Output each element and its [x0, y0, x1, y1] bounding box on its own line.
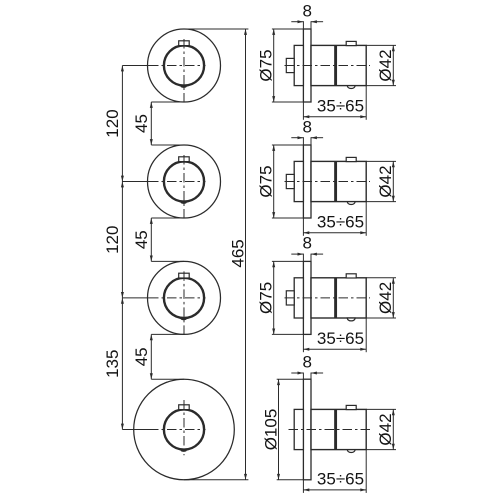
arrow up Ø75 row 3 — [272, 261, 275, 267]
extension line cylinder bottom row 1 — [366, 85, 396, 87]
front view handle knob circle row 3 (Ø42) — [164, 278, 204, 318]
extension line 35-65 left row 2 — [302, 218, 304, 236]
side view centerline row 2 — [285, 181, 371, 183]
arrow up dim 120 top — [121, 66, 124, 72]
extension line cylinder top row 3 — [366, 277, 396, 279]
extension line 8-dim left row 2 — [302, 137, 304, 145]
side view handle top index tab row 4 — [346, 405, 356, 409]
front view knob index tab row 2 — [179, 157, 190, 162]
extension line 8-dim left row 3 — [302, 254, 304, 262]
side view handle cylinder row 2 (Ø42) — [311, 161, 366, 201]
dimension line 45 gap 2 — [150, 218, 152, 261]
dimension line 8 left segment row 2 — [291, 137, 303, 139]
svg-text:45: 45 — [132, 347, 151, 366]
side view handle cylinder row 3 (Ø42) — [311, 278, 366, 318]
svg-text:45: 45 — [132, 230, 151, 249]
arrow up dim 45 gap 2 — [150, 218, 153, 224]
arrow right 35÷65 row 1 — [360, 115, 366, 118]
front view knob index tab row 1 — [179, 41, 190, 46]
dimension line Ø105 row 4 — [278, 379, 280, 480]
front view escutcheon plate circle row 4 (Ø105) — [134, 379, 235, 480]
extension line 35-65 right row 2 — [365, 202, 367, 236]
arrow left 35÷65 row 4 — [303, 488, 309, 491]
arrow 8-dim left row 1 — [298, 20, 304, 23]
arrow left 35÷65 row 3 — [303, 348, 309, 351]
side view handle bottom nub row 3 — [347, 318, 355, 321]
svg-text:Ø75: Ø75 — [257, 282, 276, 314]
extension line plate bottom row 3 — [272, 333, 304, 335]
front view vertical centerline row 1 — [183, 39, 185, 104]
arrow down Ø75 row 1 — [272, 96, 275, 102]
front view handle knob circle row 2 (Ø42) — [164, 161, 204, 201]
side view handle cylinder row 1 (Ø42) — [311, 45, 366, 85]
side view valve inlet stub row 3 — [286, 291, 294, 305]
front view horizontal centerline dash-dot row 1 — [149, 65, 206, 67]
arrow down Ø42 row 1 — [392, 80, 395, 86]
arrow right 35÷65 row 2 — [360, 231, 366, 234]
side view handle bottom nub row 2 — [347, 202, 355, 205]
front view knob bottom screw nub row 4 — [181, 449, 187, 452]
dimension line Ø42 row 1 — [392, 45, 394, 85]
front view vertical centerline row 2 — [183, 155, 185, 220]
side view centerline row 4 — [289, 429, 371, 431]
extension line plate bottom row 2 — [272, 217, 304, 219]
dimension line 8 right segment row 3 — [311, 253, 323, 255]
svg-text:8: 8 — [302, 353, 311, 372]
front view horizontal centerline dash-dot row 3 — [149, 297, 206, 299]
tangent extension line top of gap 3 — [151, 333, 184, 335]
side view valve body behind wall row 2 — [294, 161, 303, 201]
dimension line 120 (rows 2-3) — [121, 182, 123, 298]
front view handle knob circle row 4 (Ø42) — [164, 409, 204, 449]
dimension line 8 left segment row 4 — [291, 372, 303, 374]
arrow down dim 120b bottom — [121, 292, 124, 298]
side view valve body behind wall row 4 — [294, 409, 303, 449]
svg-text:Ø75: Ø75 — [257, 49, 276, 81]
front view horizontal centerline solid extension row 1 — [122, 65, 149, 67]
extension line cylinder top row 1 — [366, 44, 396, 46]
front view knob bottom screw nub row 2 — [181, 201, 187, 204]
arrow up dim 45 gap 3 — [150, 334, 153, 340]
side view valve body behind wall row 1 — [294, 45, 303, 85]
arrow down dim 45 gap 1 — [150, 139, 153, 145]
dimension line 35÷65 row 3 — [303, 348, 366, 350]
dimension line 8 right segment row 4 — [311, 372, 323, 374]
tangent extension line bottom of gap 3 — [151, 378, 184, 380]
arrow up dim 45 gap 1 — [150, 102, 153, 108]
side view valve inlet stub row 1 — [286, 58, 294, 72]
side view wall plate row 3 (Ø75 x 8) — [303, 261, 311, 334]
side view handle cylinder row 4 (Ø42) — [311, 409, 366, 449]
dimension line Ø75 row 3 — [273, 261, 275, 334]
front view horizontal centerline solid extension row 2 — [122, 181, 149, 183]
extension line cylinder bottom row 3 — [366, 317, 396, 319]
extension line 35-65 left row 3 — [302, 334, 304, 352]
svg-text:Ø42: Ø42 — [376, 49, 395, 81]
extension line cylinder bottom row 4 — [366, 449, 396, 451]
arrow down dim 45 gap 3 — [150, 373, 153, 379]
arrow up Ø105 row 4 — [277, 379, 280, 385]
side view collar/handle separation band row 2 — [334, 161, 337, 201]
dimension line 35÷65 row 1 — [303, 116, 366, 118]
arrow down Ø42 row 2 — [392, 196, 395, 202]
arrow up dim 135 top — [121, 298, 124, 304]
arrow down dim 45 gap 2 — [150, 256, 153, 262]
side view handle bottom nub row 1 — [347, 86, 355, 89]
extension line plate bottom row 4 — [277, 479, 304, 481]
arrow 8-dim right row 4 — [311, 372, 317, 375]
side view valve inlet stub row 2 — [286, 174, 294, 188]
arrow up dim 120b top — [121, 182, 124, 188]
svg-text:Ø105: Ø105 — [261, 409, 280, 451]
arrow down Ø42 row 3 — [392, 312, 395, 318]
side view handle bottom nub row 4 — [347, 450, 355, 453]
dimension line 8 left segment row 3 — [291, 253, 303, 255]
dimension line 8 right segment row 2 — [311, 137, 323, 139]
svg-text:35÷65: 35÷65 — [317, 212, 364, 231]
arrow up dim 465 — [244, 29, 247, 35]
side view wall plate row 1 (Ø75 x 8) — [303, 29, 311, 102]
extension line 35-65 left row 1 — [302, 102, 304, 120]
dimension line 35÷65 row 4 — [303, 489, 366, 491]
extension line 465 top — [184, 28, 248, 30]
dimension line 135 (rows 3-4) — [121, 298, 123, 430]
arrow 8-dim left row 3 — [298, 253, 304, 256]
arrow down dim 120 bottom — [121, 176, 124, 182]
front view escutcheon plate circle row 2 (Ø75) — [148, 145, 221, 218]
svg-text:8: 8 — [302, 117, 311, 136]
svg-text:8: 8 — [302, 234, 311, 253]
side view collar/handle separation band row 3 — [334, 278, 337, 318]
front view horizontal centerline dash-dot row 4 — [149, 429, 206, 431]
front view handle knob circle row 1 (Ø42) — [164, 45, 204, 85]
extension line 35-65 right row 3 — [365, 318, 367, 352]
extension line cylinder top row 4 — [366, 408, 396, 410]
arrow 8-dim right row 2 — [311, 136, 317, 139]
extension line plate top row 4 — [277, 378, 304, 380]
tangent extension line top of gap 1 — [151, 101, 184, 103]
side view handle top index tab row 2 — [346, 157, 356, 161]
extension line 35-65 right row 4 — [365, 450, 367, 493]
dimension line Ø75 row 1 — [273, 29, 275, 102]
arrow 8-dim left row 4 — [298, 372, 304, 375]
front view escutcheon plate circle row 3 (Ø75) — [148, 261, 221, 334]
dimension line 465 overall — [245, 29, 247, 480]
extension line 35-65 right row 1 — [365, 86, 367, 120]
svg-text:Ø75: Ø75 — [257, 165, 276, 197]
front view knob index tab row 4 — [179, 405, 190, 410]
arrow 8-dim right row 1 — [311, 20, 317, 23]
arrow up Ø42 row 2 — [392, 161, 395, 167]
dimension line 45 gap 3 — [150, 334, 152, 379]
side view wall plate row 4 (Ø105 x 8) — [303, 379, 311, 480]
extension line 8-dim left row 1 — [302, 21, 304, 29]
tangent extension line bottom of gap 1 — [151, 144, 184, 146]
extension line 465 bottom — [184, 479, 248, 481]
svg-text:35÷65: 35÷65 — [317, 470, 364, 489]
front view vertical centerline row 4 — [183, 400, 185, 455]
svg-text:45: 45 — [132, 114, 151, 133]
svg-text:Ø42: Ø42 — [376, 165, 395, 197]
arrow up Ø75 row 1 — [272, 29, 275, 35]
arrow down dim 135 bottom — [121, 424, 124, 430]
extension line plate top row 2 — [272, 144, 304, 146]
dimension line 120 (rows 1-2) — [121, 66, 123, 182]
svg-text:465: 465 — [229, 239, 248, 267]
side view collar/handle separation band row 4 — [334, 409, 337, 449]
arrow down Ø42 row 4 — [392, 444, 395, 450]
dimension line Ø42 row 2 — [392, 161, 394, 201]
dimension line 35÷65 row 2 — [303, 232, 366, 234]
tangent extension line top of gap 2 — [151, 217, 184, 219]
arrow 8-dim right row 3 — [311, 253, 317, 256]
arrow up Ø42 row 1 — [392, 45, 395, 51]
extension line 8-dim right row 2 — [310, 137, 312, 145]
extension line cylinder top row 2 — [366, 160, 396, 162]
front view knob bottom screw nub row 3 — [181, 318, 187, 321]
dimension line Ø75 row 2 — [273, 145, 275, 218]
tangent extension line bottom of gap 2 — [151, 260, 184, 262]
svg-text:35÷65: 35÷65 — [317, 329, 364, 348]
front view vertical centerline row 3 — [183, 271, 185, 336]
front view horizontal centerline solid extension row 4 — [122, 429, 149, 431]
side view handle top index tab row 1 — [346, 41, 356, 45]
front view horizontal centerline dash-dot row 2 — [149, 181, 206, 183]
dimension line Ø42 row 3 — [392, 278, 394, 318]
extension line 8-dim left row 4 — [302, 373, 304, 380]
front view knob bottom screw nub row 1 — [181, 85, 187, 88]
front view knob index tab row 3 — [179, 273, 190, 278]
arrow up Ø42 row 3 — [392, 278, 395, 284]
dimension line 8 right segment row 1 — [311, 21, 323, 23]
dimension line Ø42 row 4 — [392, 409, 394, 449]
svg-text:8: 8 — [302, 1, 311, 20]
extension line 8-dim right row 1 — [310, 21, 312, 29]
extension line 8-dim right row 4 — [310, 373, 312, 380]
svg-text:120: 120 — [103, 109, 122, 137]
extension line 8-dim right row 3 — [310, 254, 312, 262]
side view wall plate row 2 (Ø75 x 8) — [303, 145, 311, 218]
extension line plate top row 3 — [272, 260, 304, 262]
svg-text:120: 120 — [103, 226, 122, 254]
svg-text:Ø42: Ø42 — [376, 413, 395, 445]
svg-text:135: 135 — [103, 350, 122, 378]
side view handle top index tab row 3 — [346, 274, 356, 278]
front view horizontal centerline solid extension row 3 — [122, 297, 149, 299]
svg-text:35÷65: 35÷65 — [317, 96, 364, 115]
dimension line 45 gap 1 — [150, 102, 152, 145]
arrow up Ø42 row 4 — [392, 409, 395, 415]
arrow down Ø75 row 2 — [272, 212, 275, 218]
extension line plate bottom row 1 — [272, 101, 304, 103]
arrow right 35÷65 row 4 — [360, 488, 366, 491]
arrow right 35÷65 row 3 — [360, 348, 366, 351]
side view collar/handle separation band row 1 — [334, 45, 337, 85]
extension line 35-65 left row 4 — [302, 480, 304, 493]
arrow up Ø75 row 2 — [272, 145, 275, 151]
svg-text:Ø42: Ø42 — [376, 282, 395, 314]
arrow left 35÷65 row 1 — [303, 115, 309, 118]
side view centerline row 3 — [285, 297, 371, 299]
arrow down Ø75 row 3 — [272, 329, 275, 335]
arrow 8-dim left row 2 — [298, 136, 304, 139]
arrow down dim 465 — [244, 474, 247, 480]
extension line cylinder bottom row 2 — [366, 201, 396, 203]
front view escutcheon plate circle row 1 (Ø75) — [148, 29, 221, 102]
extension line plate top row 1 — [272, 28, 304, 30]
arrow left 35÷65 row 2 — [303, 231, 309, 234]
dimension line 8 left segment row 1 — [291, 21, 303, 23]
side view valve body behind wall row 3 — [294, 278, 303, 318]
arrow down Ø105 row 4 — [277, 474, 280, 480]
side view centerline row 1 — [285, 65, 371, 67]
